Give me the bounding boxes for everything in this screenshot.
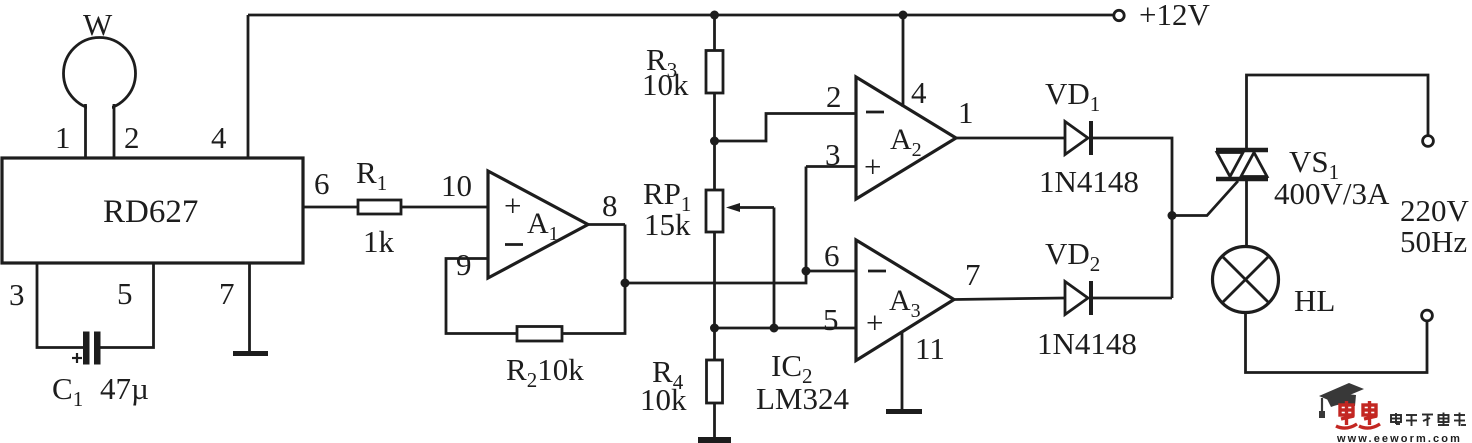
wire A3 pin11 down (901, 332, 904, 409)
svg-text:10k: 10k (642, 67, 689, 102)
wire A3 output to VD2 (954, 298, 1065, 300)
svg-text:3: 3 (825, 137, 841, 172)
wire R2 to A1 output node (562, 225, 625, 334)
svg-text:6: 6 (314, 166, 330, 201)
watermark graduation cap (1319, 383, 1364, 418)
wire A2 output to VD1 (956, 137, 1065, 140)
svg-text:1N4148: 1N4148 (1039, 164, 1139, 199)
svg-text:11: 11 (915, 331, 945, 366)
lamp HL (1213, 247, 1279, 313)
watermark site name characters (1391, 413, 1466, 427)
svg-text:15k: 15k (644, 207, 691, 242)
svg-text:1k: 1k (363, 224, 395, 259)
node top rail to R3 junction (710, 11, 719, 20)
svg-text:400V/3A: 400V/3A (1274, 176, 1390, 211)
svg-text:1: 1 (958, 95, 974, 130)
capacitor C1 (72, 332, 101, 365)
svg-text:220V: 220V (1400, 193, 1470, 228)
wire pin3 down (37, 263, 83, 348)
wire mains top to triac (1247, 75, 1429, 148)
svg-text:1: 1 (55, 120, 71, 155)
op-amp A1 (488, 171, 588, 278)
terminal +12V open circle (1114, 10, 1124, 20)
wire RP1 bottom to R4 (713, 232, 716, 360)
svg-text:8: 8 (602, 188, 618, 223)
wire lamp to mains bottom (1246, 313, 1428, 373)
wire A2 pin4 to rail (902, 15, 905, 107)
wire pin 6 to R1 (303, 206, 358, 209)
node pin6 branch junction (802, 267, 811, 276)
svg-text:HL: HL (1294, 283, 1335, 318)
wire pin5 down (101, 263, 154, 348)
svg-text:www.eeworm.com: www.eeworm.com (1336, 433, 1462, 443)
wire VD1 to gate node (1093, 138, 1172, 298)
svg-text:RD627: RD627 (103, 194, 198, 230)
resistor R4 (707, 360, 723, 403)
node diode junction (1168, 211, 1177, 220)
svg-text:R210k: R210k (506, 352, 584, 392)
svg-text:9: 9 (456, 247, 472, 282)
wire A1 output to comparator inputs (625, 167, 806, 284)
svg-text:1N4148: 1N4148 (1037, 326, 1137, 361)
node R3-RP1 junction (710, 137, 719, 146)
terminal mains top open circle (1423, 136, 1434, 147)
svg-text:7: 7 (965, 257, 981, 292)
wire A1 pin8 output (588, 223, 625, 226)
wire pin3 line to A2 (806, 165, 856, 168)
IC RD627 box (2, 158, 303, 263)
node top rail to A2 pin4 junction (899, 11, 908, 20)
diode VD1 (1065, 121, 1091, 155)
ground below R4 (698, 437, 731, 443)
wire gate lead to triac (1172, 181, 1238, 216)
svg-text:50Hz: 50Hz (1400, 224, 1467, 259)
wire R3 bottom to RP1 (713, 93, 716, 190)
svg-text:4: 4 (911, 75, 927, 110)
resistor R2 (517, 327, 562, 342)
wire R1 to A1 pin10 (401, 206, 488, 209)
wire pin5 line to A3 (715, 327, 857, 330)
svg-text:LM324: LM324 (756, 381, 850, 416)
node RP1-R4 junction (710, 324, 719, 333)
svg-text:W: W (83, 7, 113, 42)
node A1 output junction (621, 279, 630, 288)
wire A1 pin9 feedback left (446, 259, 517, 334)
svg-text:3: 3 (9, 277, 25, 312)
op-amp A2 (856, 77, 956, 199)
wire RP1 wiper down to pin5 line (773, 208, 776, 329)
svg-text:47µ: 47µ (100, 371, 149, 406)
svg-text:10: 10 (441, 168, 472, 203)
potentiometer RP1 (706, 190, 774, 232)
wire VD2 to gate node (1093, 297, 1172, 300)
watermark chongchong red characters (1336, 401, 1380, 428)
svg-text:6: 6 (824, 238, 840, 273)
svg-text:+12V: +12V (1139, 0, 1210, 32)
wire pin6 line to A3 (806, 270, 856, 273)
wire pin7 down (248, 263, 251, 351)
node wiper junction (770, 324, 779, 333)
resistor R1 (358, 200, 401, 214)
wire junction to A2 pin2 (715, 114, 857, 142)
ground below pin11 (886, 409, 922, 414)
svg-text:10k: 10k (640, 382, 687, 417)
svg-text:+: + (866, 305, 883, 340)
wire pin 4 to +12V rail (247, 15, 250, 158)
wire triac to lamp (1245, 181, 1248, 247)
ground below pin7 (233, 351, 268, 356)
svg-text:4: 4 (211, 120, 227, 155)
wire +12V top rail (248, 14, 1113, 17)
triac VS1 (1216, 150, 1268, 179)
wire R4 to ground (713, 403, 716, 438)
op-amp A3 (856, 240, 954, 361)
diode VD2 (1065, 281, 1091, 315)
terminal mains bottom open circle (1422, 310, 1433, 321)
svg-text:2: 2 (124, 120, 140, 155)
svg-text:5: 5 (117, 276, 133, 311)
sensor W bulb (64, 38, 136, 159)
svg-text:5: 5 (823, 302, 839, 337)
resistor R3 (706, 51, 723, 94)
svg-text:7: 7 (219, 276, 235, 311)
svg-text:2: 2 (826, 79, 842, 114)
wire R3 top (713, 15, 716, 51)
svg-text:+: + (864, 149, 881, 184)
svg-text:+: + (504, 188, 521, 223)
